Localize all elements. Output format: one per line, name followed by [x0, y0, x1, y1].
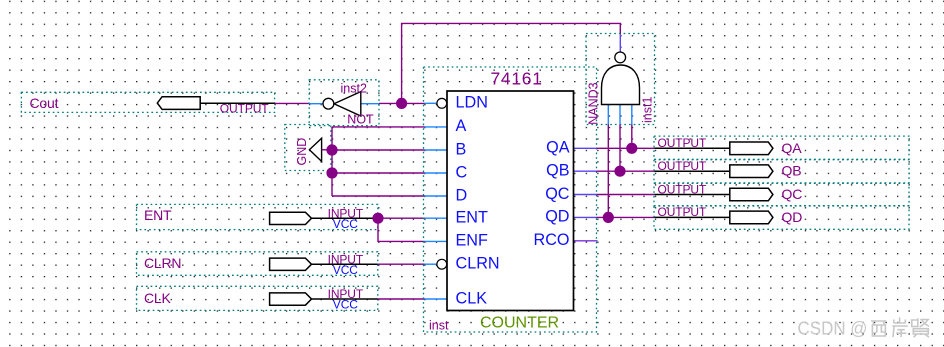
NOT gate inst2 selection box — [309, 80, 379, 126]
svg-text:QC: QC — [782, 186, 803, 202]
wire NAND3 input 1 to QA — [631, 125, 633, 149]
input pin CLRN — [144, 252, 378, 277]
wire Cout net (pin to NOT output) — [275, 102, 310, 104]
svg-text:ENT: ENT — [456, 209, 488, 227]
wire GND to B — [332, 149, 425, 151]
junction node QB — [614, 166, 625, 177]
svg-text:CLK: CLK — [456, 289, 488, 307]
junction node LDN/NOT/feedback — [396, 98, 407, 109]
svg-text:ENF: ENF — [456, 232, 488, 250]
svg-text:RCO: RCO — [534, 231, 570, 249]
output pin QA selection box — [654, 136, 909, 159]
svg-text:QC: QC — [545, 185, 570, 203]
svg-text:D: D — [456, 187, 468, 205]
74161 counter U1 (inst) — [425, 69, 598, 333]
wire CLRN to block — [378, 263, 425, 265]
output pin QD — [655, 205, 803, 225]
svg-text:OUTPUT: OUTPUT — [658, 159, 708, 173]
output pin QC selection box — [654, 183, 909, 205]
svg-text:COUNTER: COUNTER — [480, 314, 559, 331]
svg-text:inst: inst — [429, 319, 449, 333]
input pin CLRN selection box — [137, 252, 378, 275]
svg-text:OUTPUT: OUTPUT — [658, 136, 708, 150]
input pin ENT — [144, 206, 378, 231]
output pin QB — [655, 159, 802, 179]
wire GND to A — [332, 126, 425, 128]
output pin QD selection box — [654, 206, 909, 229]
svg-text:OUTPUT: OUTPUT — [658, 205, 708, 219]
svg-text:CLRN: CLRN — [456, 255, 500, 273]
wire ENT to block — [378, 217, 425, 219]
wire NAND3 input 3 to QD — [607, 125, 609, 218]
input pin ENT selection box — [137, 204, 378, 229]
svg-text:QB: QB — [546, 162, 569, 180]
output pin QC — [655, 182, 803, 202]
svg-text:VCC: VCC — [333, 298, 358, 312]
wire GND rail vertical — [331, 127, 333, 196]
wire vertical to top feedback — [402, 23, 621, 103]
svg-text:LDN: LDN — [456, 94, 488, 112]
junction node B — [326, 144, 337, 155]
svg-text:NOT: NOT — [347, 113, 374, 127]
wire CLK to block — [378, 298, 425, 300]
output pin QA — [655, 136, 803, 156]
svg-text:VCC: VCC — [333, 263, 358, 277]
output pin QB selection box — [654, 160, 909, 183]
junction node QD — [603, 212, 614, 223]
wire NOT output to LDN — [379, 102, 425, 104]
wire QD net — [597, 216, 655, 218]
wire NAND3 input 2 to QB — [619, 125, 621, 172]
svg-text:74161: 74161 — [491, 69, 543, 89]
svg-text:QB: QB — [782, 163, 802, 179]
wire GND to D — [332, 195, 425, 197]
74161 counter selection box — [424, 67, 597, 332]
output pin Cout — [30, 95, 275, 116]
ground GND — [295, 138, 332, 166]
NOT gate inst2 — [309, 82, 379, 127]
svg-text:CSDN @: CSDN @ — [798, 317, 868, 338]
output pin Cout selection box — [21, 92, 274, 112]
svg-text:OUTPUT: OUTPUT — [658, 182, 708, 196]
svg-text:inst2: inst2 — [341, 82, 367, 96]
svg-text:CLRN: CLRN — [144, 255, 181, 271]
input pin CLK selection box — [137, 286, 378, 310]
svg-text:NAND3: NAND3 — [587, 82, 601, 124]
wire QB net — [597, 170, 655, 172]
NAND3 gate inst1 selection box — [586, 34, 655, 125]
wire ENT to ENF — [378, 218, 425, 241]
wire QA net — [597, 147, 655, 149]
svg-text:B: B — [456, 140, 467, 158]
svg-text:VCC: VCC — [333, 217, 358, 231]
input pin CLK — [144, 287, 378, 312]
svg-text:QA: QA — [546, 139, 570, 157]
svg-text:QD: QD — [782, 209, 803, 225]
svg-text:CLK: CLK — [144, 290, 171, 306]
NAND3 gate inst1 — [587, 34, 655, 125]
junction node ENT — [372, 213, 383, 224]
svg-text:QD: QD — [545, 208, 569, 226]
svg-text:inst1: inst1 — [641, 97, 655, 123]
svg-text:A: A — [456, 117, 467, 135]
junction node C — [326, 167, 337, 178]
junction node QA — [626, 143, 637, 154]
GND symbol selection box — [285, 125, 331, 171]
svg-text:Cout: Cout — [30, 95, 59, 111]
svg-text:C: C — [456, 164, 468, 182]
svg-text:ENT: ENT — [144, 207, 172, 223]
svg-text:GND: GND — [295, 138, 309, 166]
svg-text:QA: QA — [782, 140, 803, 156]
wire QC net — [597, 194, 655, 196]
svg-text:OUTPUT: OUTPUT — [220, 102, 270, 116]
wire GND to C — [332, 172, 425, 174]
watermark CSDN — [798, 317, 930, 338]
